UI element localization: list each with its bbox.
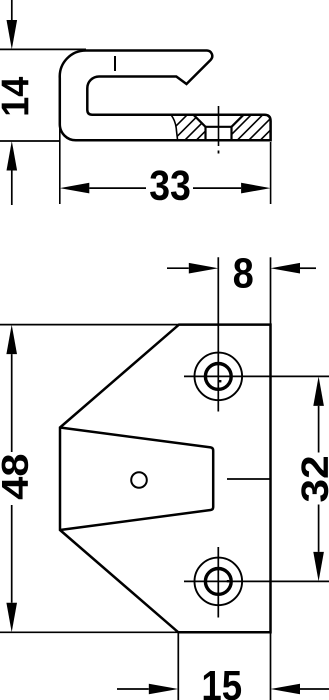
pocket <box>60 428 213 531</box>
dim 14 top arrow <box>11 0 13 20</box>
plate outline (front view) <box>60 325 271 633</box>
countersink hole section <box>194 115 244 141</box>
dim 15 extension lines <box>177 632 179 700</box>
tick mark on hook top <box>114 56 116 71</box>
extension line bottom of 14 dim <box>0 140 59 142</box>
dim 33 arrows + line <box>60 183 90 194</box>
label 14 <box>2 77 29 115</box>
extension line top of 14 dim <box>0 48 86 50</box>
mid dash <box>227 478 271 480</box>
label 32 <box>301 457 328 502</box>
label 8 <box>234 258 253 288</box>
dim 15 arrows <box>117 688 149 690</box>
hole centerline (side view) <box>218 106 220 146</box>
top hole <box>195 353 243 401</box>
dim 32 <box>313 376 324 406</box>
dim 48 extension lines <box>0 324 179 326</box>
dim 8 arrows <box>167 267 189 269</box>
dim 14 bottom arrow <box>7 141 18 171</box>
dim 48 arrows + line <box>6 325 17 355</box>
label 33 <box>150 170 189 200</box>
label 48 <box>2 455 29 500</box>
dim 8 extension/center line <box>217 257 219 411</box>
pocket hole <box>131 472 147 488</box>
label 15 <box>204 671 241 700</box>
dim 33 extension lines <box>59 125 61 204</box>
hook outline (side view) <box>60 50 271 140</box>
section break boundary <box>171 115 178 141</box>
bottom hole <box>195 558 243 606</box>
